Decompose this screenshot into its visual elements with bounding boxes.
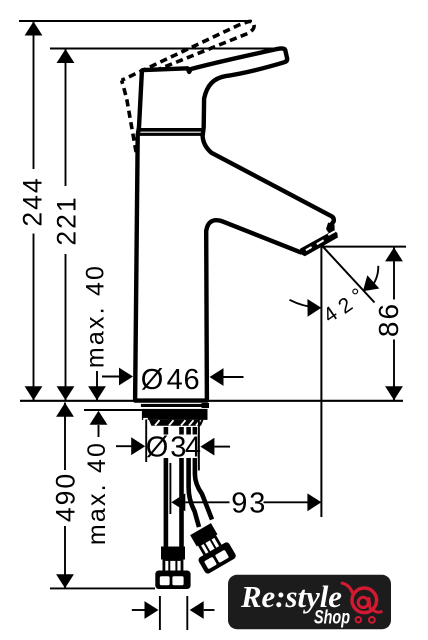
spout outlet vertical line: [320, 245, 322, 517]
faucet body fill: [135, 48, 334, 400]
svg-text:max. 40: max. 40: [82, 264, 110, 368]
extension line 490 bottom: [50, 587, 155, 589]
angle arrow straight: [290, 299, 322, 317]
mounting baseline: [20, 400, 403, 402]
dim line 490: [56, 403, 74, 589]
svg-text:86: 86: [373, 302, 404, 337]
dim line 244: [25, 21, 43, 400]
label diameter 34: [146, 432, 201, 464]
logo cart handle: [342, 583, 352, 593]
dim line 86: [385, 247, 403, 400]
hose walls and shank: [166, 427, 212, 547]
svg-text:Ø: Ø: [146, 432, 169, 464]
label diameter 46: [141, 364, 200, 396]
extension line ref 221: [50, 48, 286, 50]
extension line hose axis for 93: [169, 463, 171, 514]
svg-text:max. 40: max. 40: [83, 441, 111, 545]
svg-text:490: 490: [51, 472, 81, 522]
label 93: [231, 488, 265, 520]
white mask for dia34 label: [147, 435, 197, 459]
svg-text:6: 6: [184, 364, 200, 396]
handle ring joint: [139, 130, 202, 135]
extension lines dia34: [146, 418, 199, 471]
faucet body outline: [135, 48, 334, 400]
dim arrows dia46: [102, 368, 244, 386]
svg-text:3: 3: [249, 488, 265, 520]
label 42 deg: [319, 284, 368, 328]
svg-text:Shop: Shop: [314, 608, 350, 629]
dim line max40 upper: [88, 371, 106, 400]
svg-text:4: 4: [167, 364, 183, 396]
extension line counter underside: [84, 409, 142, 411]
logo box: [228, 575, 391, 629]
dim line 93: [171, 493, 321, 511]
water angle diagonal: [322, 246, 375, 303]
straight hose fitting: [155, 547, 190, 590]
bottom dim extension lines: [160, 596, 187, 630]
bottom dim arrows: [132, 601, 215, 619]
svg-text:221: 221: [52, 195, 82, 245]
angled hose fitting: [185, 520, 237, 574]
logo cart wheels: [356, 617, 375, 623]
angle arc arrow: [363, 266, 379, 292]
svg-text:9: 9: [231, 488, 247, 520]
extension line top ref 244: [19, 20, 252, 22]
logo cart at-sign: [352, 588, 382, 613]
flange hatch white slits: [143, 418, 200, 426]
base flange: [141, 403, 209, 426]
dim arrows dia34: [116, 437, 230, 455]
aerator: [299, 223, 338, 257]
svg-text:244: 244: [18, 176, 48, 226]
svg-text:Ø: Ø: [141, 364, 164, 396]
outlet horizontal extension: [321, 246, 406, 248]
dim line 221: [57, 49, 75, 401]
dim line max40 lower: [90, 411, 108, 437]
dashed handle raised position: [122, 21, 255, 155]
